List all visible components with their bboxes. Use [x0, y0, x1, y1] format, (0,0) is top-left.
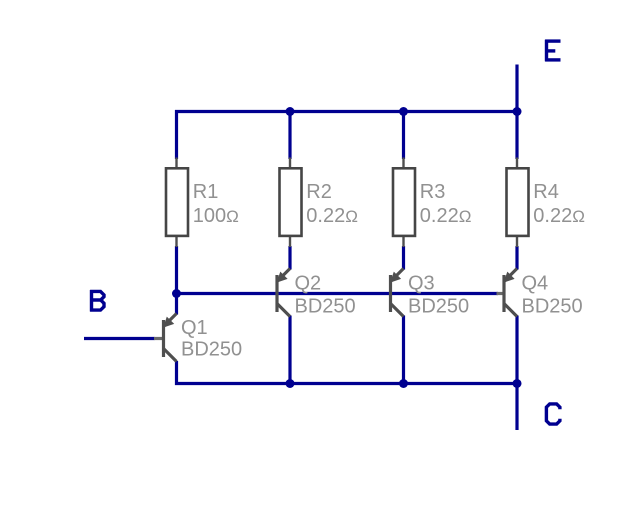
wire col4 R4 to Q4	[515, 246, 518, 270]
junction bottom col4 C	[513, 379, 522, 388]
wire col3 top	[402, 112, 405, 160]
wire B terminal	[84, 337, 155, 340]
svg-text:0.22Ω: 0.22Ω	[533, 205, 585, 227]
resistor R4	[507, 158, 529, 248]
svg-text:BD250: BD250	[295, 296, 356, 318]
svg-text:Q2: Q2	[295, 273, 322, 295]
transistor Q1	[154, 314, 177, 362]
resistor R3	[393, 158, 415, 248]
wire C terminal vertical	[515, 384, 518, 431]
node C label	[546, 404, 560, 424]
svg-text:BD250: BD250	[522, 296, 583, 318]
svg-text:Q3: Q3	[408, 273, 435, 295]
wire col1 top	[175, 110, 178, 159]
wire col3 R3 to Q3	[402, 246, 405, 270]
svg-text:R2: R2	[306, 181, 332, 203]
node E label	[545, 40, 560, 62]
junction bottom col2	[286, 379, 295, 388]
node B label	[90, 290, 104, 312]
wire col4 Q4 collector down	[515, 316, 518, 384]
transistor Q4	[497, 269, 518, 317]
junction top col2	[286, 107, 295, 116]
wire col2 top	[288, 112, 291, 160]
wire base rail	[177, 292, 499, 295]
junction top col4 E	[513, 107, 522, 116]
wire top rail E	[175, 110, 519, 113]
svg-text:R4: R4	[533, 181, 559, 203]
svg-text:R1: R1	[193, 181, 219, 203]
wire col3 Q3 collector down	[402, 316, 405, 384]
wire col1 R1 to Q1	[175, 246, 178, 315]
junction top col3	[399, 107, 408, 116]
svg-text:Q1: Q1	[181, 317, 208, 339]
transistor Q2	[277, 269, 290, 317]
wire col2 R2 to Q2	[288, 246, 291, 270]
svg-text:BD250: BD250	[408, 296, 469, 318]
junction bottom col3	[399, 379, 408, 388]
resistor R1	[166, 158, 188, 248]
svg-text:R3: R3	[420, 181, 446, 203]
wire E terminal vertical	[515, 65, 518, 160]
svg-text:0.22Ω: 0.22Ω	[306, 205, 358, 227]
svg-text:0.22Ω: 0.22Ω	[420, 205, 472, 227]
transistor Q3	[390, 269, 403, 317]
junction base rail col1	[172, 289, 181, 298]
svg-text:BD250: BD250	[181, 339, 242, 361]
svg-text:100Ω: 100Ω	[193, 205, 239, 227]
resistor R2	[280, 158, 302, 248]
svg-text:Q4: Q4	[522, 273, 549, 295]
wire Q1 collector down and bottom rail	[177, 361, 519, 384]
wire col2 Q2 collector down	[288, 316, 291, 384]
